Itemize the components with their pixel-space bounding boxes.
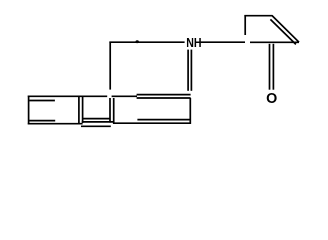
fused bond double line 1 (middle/right ring) — [109, 98, 111, 123]
middle ring: bottom inner line — [83, 118, 110, 120]
inner double bond line below bottom edge — [81, 125, 111, 127]
bottom edge bond (left ring) — [28, 123, 83, 125]
fused bond double line 2 (left/middle ring) — [82, 97, 84, 123]
atom junction dot on chain — [136, 40, 139, 43]
right ring: top edge bond — [244, 15, 272, 17]
right aromatic ring: top edge lower fork line — [137, 97, 191, 99]
bottom edge bond (right ring) — [113, 122, 191, 124]
right ring: bottom edge bond — [250, 41, 299, 43]
right aromatic ring: top edge upper fork line — [137, 94, 191, 96]
left ring: inner double bond line (bottom) — [29, 120, 55, 122]
svg-text:NH: NH — [186, 35, 201, 50]
C=N double bond line 2 (below NH) — [190, 50, 192, 91]
bond CH2 to NH (horizontal) — [109, 41, 184, 43]
bottom edge bond (middle ring) — [82, 121, 114, 123]
C=N double bond line 1 (below NH) — [187, 50, 189, 91]
fused bond double line 1 (left/middle ring) — [78, 97, 80, 123]
right aromatic ring: bottom inner double bond line — [137, 119, 190, 121]
left aromatic ring: left edge — [28, 96, 30, 125]
carbonyl C=O double bond line 2 — [272, 44, 274, 90]
right ring: C=C diagonal main line — [272, 15, 299, 42]
right aromatic ring: top edge single segment — [112, 95, 137, 97]
right ring: vertical bond (top-left edge) — [244, 15, 246, 35]
right ring: C=C diagonal inner line — [270, 19, 296, 44]
carbonyl C=O double bond line 1 — [269, 44, 271, 90]
svg-text:O: O — [266, 91, 277, 107]
fused bond double line 2 (middle/right ring) — [113, 98, 115, 123]
aromatic system: top edge (left+middle ring) — [28, 95, 107, 97]
bond NH to right ring — [201, 41, 245, 43]
right aromatic ring: right edge — [189, 98, 191, 124]
vertical bond from chain down to aromatic ring — [109, 42, 111, 90]
left ring: inner double bond line (top) — [30, 100, 55, 102]
